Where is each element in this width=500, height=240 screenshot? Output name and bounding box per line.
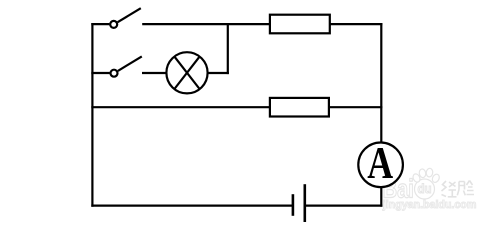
svg-text:du: du bbox=[418, 182, 432, 196]
svg-text:jingyan.baidu.com: jingyan.baidu.com bbox=[382, 199, 477, 211]
svg-text:A: A bbox=[367, 137, 393, 188]
